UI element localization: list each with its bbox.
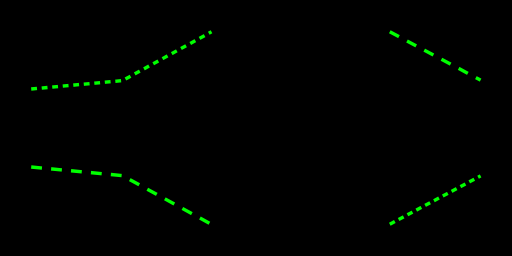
curve A lower-right branch (dotted, re-enters from bottom clip edge)	[390, 176, 481, 224]
curve B upper-right branch (dashed, re-enters from top clip edge)	[390, 32, 481, 80]
curve A upper-left branch (dotted, rises to top clip edge)	[31, 32, 211, 89]
curve B lower-left branch (dashed, falls to bottom clip edge)	[31, 167, 211, 224]
